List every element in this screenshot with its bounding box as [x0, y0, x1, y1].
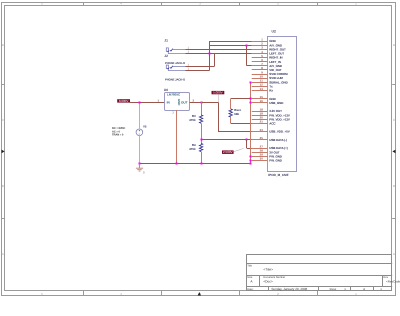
- wire A/V_GND vertical to pin 7: [246, 45, 248, 66]
- wire GND net to U2 pin 1: [210, 41, 252, 43]
- title block divider before of: [350, 287, 352, 291]
- svg-text:of: of: [363, 288, 365, 291]
- svg-text:5.000V: 5.000V: [213, 91, 223, 95]
- title block line under Size row: [247, 286, 393, 288]
- zone tick bottom: [161, 291, 163, 296]
- U2 pin 16 stub: [252, 102, 268, 104]
- svg-text:8.000V: 8.000V: [119, 99, 129, 103]
- svg-text:30: 30: [260, 157, 264, 161]
- svg-text:B: B: [2, 184, 4, 188]
- zone tick bottom: [239, 291, 241, 296]
- probe leader 2.500V: [234, 148, 244, 151]
- svg-text:OUT: OUT: [181, 101, 188, 105]
- J2 jack symbol: [166, 65, 168, 69]
- title block divider Rev: [382, 275, 384, 287]
- junction USB data branch: [246, 139, 248, 141]
- centre marker right: [392, 150, 395, 154]
- U2 pin 9 stub: [252, 74, 268, 76]
- svg-text:V5: V5: [143, 124, 147, 128]
- junction ground bus / pin 30 PW_GND: [250, 160, 252, 162]
- wire V5 top lead: [139, 102, 141, 129]
- J1 pin 1 lead: [173, 49, 186, 51]
- U2 pin 30 stub: [252, 160, 268, 162]
- svg-text:21: 21: [260, 120, 264, 124]
- junction at J1 pin2 / ground vertical: [209, 53, 211, 55]
- zone tick top: [83, 2, 85, 5]
- Racc bottom lead: [230, 117, 232, 123]
- svg-text:0: 0: [143, 170, 145, 174]
- centre marker bottom: [198, 292, 201, 296]
- wire ground rail: [139, 163, 250, 165]
- Racc top lead: [230, 99, 232, 109]
- svg-text:Sunday, January 20, 2008: Sunday, January 20, 2008: [271, 287, 307, 291]
- voltage probe label 8.000V: [117, 99, 130, 102]
- R3 top lead: [201, 102, 203, 115]
- title block line under Title row: [247, 275, 393, 277]
- U2 pin 7 stub: [252, 65, 268, 67]
- wire to U2 pin 7: [247, 65, 252, 67]
- zone tick bottom: [317, 291, 319, 296]
- probe leader 5.000V: [218, 94, 220, 102]
- junction rail / R4: [201, 163, 203, 165]
- title block line under top strip: [247, 263, 393, 265]
- junction ground bus / pin 29 PW_GND: [250, 156, 252, 158]
- U2 pin 3 stub: [252, 49, 268, 51]
- resistor Racc zigzag: [229, 109, 232, 117]
- svg-text:Date:: Date:: [247, 288, 253, 291]
- U2 pin 20 stub: [252, 119, 268, 121]
- wire divider midpoint to USB DATA (-): [201, 139, 247, 141]
- svg-text:13: 13: [260, 87, 264, 91]
- wire U6 GND pin to ground rail: [176, 110, 178, 164]
- wire J2 pin 1 to LEFT_OUT vertical: [186, 66, 215, 68]
- zone tick top: [161, 2, 163, 5]
- wire J1 pin1 to U2 pin 3 RIGHT_OUT: [186, 49, 252, 51]
- junction A/V_GND branch: [246, 45, 248, 47]
- U2 pin 6 stub: [252, 61, 268, 63]
- junction ground bus / pin 15 GND: [250, 98, 252, 100]
- wire 8V net from label to U6 IN: [130, 102, 165, 104]
- svg-text:<Title>: <Title>: [263, 268, 273, 272]
- U2 pin 19 stub: [252, 115, 268, 117]
- svg-text:IPOD_M_CMF: IPOD_M_CMF: [268, 173, 288, 177]
- U2 pin 10 stub: [252, 78, 268, 80]
- svg-text:PHONE JACK-O: PHONE JACK-O: [165, 78, 186, 82]
- svg-text:U2: U2: [272, 29, 276, 33]
- resistor R4 zigzag: [199, 144, 202, 152]
- regulator U6 body: [165, 93, 190, 111]
- wire A/V_GND net to U2 pin 2: [210, 45, 252, 47]
- R3 bottom lead / divider node: [201, 123, 203, 143]
- zone tick left: [1, 218, 4, 220]
- svg-text:25: 25: [260, 136, 264, 140]
- U2 pin 25 stub: [252, 139, 268, 141]
- junction rail / U6 GND: [176, 163, 178, 165]
- svg-text:TRAN = 0: TRAN = 0: [112, 134, 124, 137]
- svg-text:GND: GND: [177, 99, 181, 107]
- svg-text:J1: J1: [164, 38, 168, 42]
- wire 5V node to USB power branch: [201, 102, 218, 104]
- svg-text:PHONE JACK-O: PHONE JACK-O: [165, 61, 186, 65]
- title block divider before Sheet: [318, 287, 320, 291]
- U2 pin 18 stub: [252, 111, 268, 113]
- U2 pin 2 stub: [252, 45, 268, 47]
- U2 pin 1 stub: [252, 41, 268, 43]
- svg-text:PW_GND: PW_GND: [269, 159, 283, 163]
- U2 pin 27 stub: [252, 148, 268, 150]
- svg-text:USB_VDD_+5V: USB_VDD_+5V: [269, 130, 289, 134]
- U2 pin 12 stub: [252, 86, 268, 88]
- junction rail / ground bus corner: [250, 163, 252, 165]
- svg-text:16: 16: [260, 99, 264, 103]
- junction ground bus / pin 16 USB_GND: [250, 102, 252, 104]
- title block divider Size/Document: [259, 275, 261, 287]
- svg-text:A: A: [393, 252, 395, 256]
- wire Racc top to U2 pin 15 GND: [231, 98, 252, 100]
- wire U6 OUT to 5V node: [190, 102, 202, 104]
- U2 pin 4 stub: [252, 53, 268, 55]
- wire J1 pin2 / U2 pin 4 LEFT_OUT: [186, 53, 252, 55]
- svg-text:USB_GND: USB_GND: [269, 101, 284, 105]
- svg-text:J2: J2: [164, 54, 168, 58]
- title block divider after Date: [268, 287, 270, 291]
- U2 pin 13 stub: [252, 90, 268, 92]
- svg-text:68k: 68k: [234, 112, 239, 116]
- svg-text:470k: 470k: [189, 118, 196, 122]
- junction 8V net / V5: [139, 102, 141, 104]
- R4 bottom lead to ground rail: [201, 152, 203, 164]
- junction ground bus / pin 11 SERIAL_GND: [250, 82, 252, 84]
- svg-text:<Doc>: <Doc>: [263, 280, 273, 284]
- svg-text:A: A: [2, 252, 4, 256]
- ground 0 symbol: [136, 164, 143, 172]
- J2 pin 1 lead: [173, 66, 186, 68]
- wire to U2 pin 25: [247, 139, 252, 141]
- voltage probe label 2.500V: [222, 150, 234, 154]
- voltage source V5: [136, 129, 143, 136]
- J1 jack symbol: [166, 48, 168, 52]
- junction divider midpoint: [201, 139, 203, 141]
- wire Racc to U2 pin 21 ACC: [231, 123, 252, 125]
- U2 pin 23 stub: [252, 131, 268, 133]
- U2 pin 15 stub: [252, 98, 268, 100]
- wire ground vertical from pin1 row to J2 pin 2: [209, 41, 211, 70]
- svg-text:Title: Title: [247, 264, 252, 267]
- title block outline: [247, 255, 392, 291]
- wire vertical J2 pin1 to LEFT_OUT: [214, 53, 216, 66]
- zone tick left: [1, 84, 4, 86]
- title block divider after of: [373, 287, 375, 291]
- U2 pin 8 stub: [252, 69, 268, 71]
- junction 5V node / R3: [201, 102, 203, 104]
- wire to U2 pin 27 USB DATA (+): [247, 148, 252, 150]
- U2 pin 11 stub: [252, 82, 268, 84]
- voltage probe label 5.000V: [212, 91, 225, 94]
- svg-text:470k: 470k: [189, 147, 196, 151]
- svg-text:Sheet: Sheet: [330, 288, 337, 291]
- svg-text:23: 23: [260, 128, 264, 132]
- wire vertical USB data branch: [246, 140, 248, 148]
- U2 pin 21 stub: [252, 123, 268, 125]
- zone tick right: [392, 218, 396, 220]
- centre marker left: [2, 150, 5, 154]
- connector U2 body: [268, 37, 297, 172]
- svg-text:<RevCode: <RevCode: [386, 280, 400, 284]
- zone tick right: [392, 84, 396, 86]
- zone tick top: [239, 2, 241, 5]
- wire V5 bottom lead to ground rail: [139, 136, 141, 164]
- U2 pin 29 stub: [252, 156, 268, 158]
- svg-text:2.500V: 2.500V: [223, 150, 233, 154]
- resistor R3 zigzag: [199, 115, 202, 123]
- junction rail / V5: [139, 163, 141, 165]
- svg-text:USB DATA (-): USB DATA (-): [269, 138, 287, 142]
- wire ground bus vertical at connector: [250, 82, 252, 163]
- wire vertical to USB_VDD: [218, 102, 220, 131]
- svg-text:ACC: ACC: [269, 122, 276, 126]
- wire to U2 pin 23 USB_VDD_+5V: [218, 131, 252, 133]
- U2 pin 5 stub: [252, 57, 268, 59]
- wire J2 pin 2 to ground vertical: [186, 70, 210, 72]
- svg-text:B: B: [393, 184, 395, 188]
- zone tick top: [317, 2, 319, 5]
- zone tick bottom: [83, 291, 85, 296]
- svg-text:Rx: Rx: [269, 89, 273, 93]
- svg-text:LM7805C: LM7805C: [167, 92, 181, 96]
- U2 pin 28 stub: [252, 152, 268, 154]
